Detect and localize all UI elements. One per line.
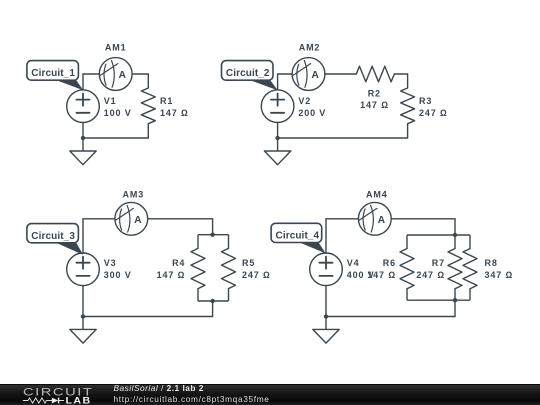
svg-text:R1: R1 [160,96,173,106]
wire: AM4 right to parallel top node [391,219,455,235]
node: circuit 1 ground junction [81,136,85,140]
resistor R8 [463,249,477,289]
resistor R2 [356,66,394,82]
wire: V3 bottom to ground node [82,286,84,317]
CircuitLab logo: LAB wordmark [66,396,92,405]
node: circuit 2 ground junction [275,136,279,140]
svg-text:Circuit_1: Circuit_1 [31,68,75,79]
voltage source V1 [67,90,100,123]
wire: V1 top to AM1 left [83,74,99,90]
svg-text:247 Ω: 247 Ω [242,270,271,280]
svg-text:R7: R7 [432,258,445,268]
wire: parallel bottom bar [198,300,229,302]
svg-text:200 V: 200 V [298,108,326,118]
svg-text:147 Ω: 147 Ω [160,108,189,118]
node: circuit 4 ground junction [324,314,328,318]
label AM3 [123,189,145,199]
svg-text:A: A [134,215,142,226]
ground (circuit 2) [264,151,290,165]
ammeter AM4 [358,202,391,235]
wire: V2 bottom to ground node [277,123,279,139]
svg-text:BasilSorial / 2.1 lab 2: BasilSorial / 2.1 lab 2 [114,383,204,393]
wire: parallel top bar [198,234,229,236]
svg-text:http://circuitlab.com/c8pt3mqa: http://circuitlab.com/c8pt3mqa35fme [114,394,270,404]
label AM4 [366,189,388,199]
footer title text [114,383,204,393]
svg-text:V2: V2 [298,96,311,106]
svg-text:Circuit_2: Circuit_2 [226,68,270,79]
svg-text:R5: R5 [242,258,255,268]
wire: V3 top to AM3 left [83,219,115,253]
wire: parallel top bar [407,234,470,236]
wire: bottom node to ground wire [326,300,455,316]
wire: R4 stubs [197,235,199,301]
wire: AM3 right to parallel top node [148,219,213,235]
label V4 400 V [347,258,375,280]
svg-text:V1: V1 [104,96,117,106]
ammeter AM2 [292,58,325,91]
svg-text:Circuit_4: Circuit_4 [276,231,320,242]
svg-text:247 Ω: 247 Ω [419,108,448,118]
wire: bottom node to ground wire [83,301,213,317]
svg-text:347 Ω: 347 Ω [485,270,514,280]
svg-text:147 Ω: 147 Ω [367,270,396,280]
voltage source V3 [67,253,100,286]
footer url text [114,394,270,404]
label R3 247 Ω [419,96,448,118]
wire: R2 right to R3 top [394,74,407,88]
ammeter AM3 [115,202,148,235]
svg-text:100 V: 100 V [104,108,132,118]
label R1 147 Ω [160,96,189,118]
svg-text:Circuit_3: Circuit_3 [31,231,75,242]
node name flag Circuit_2 [222,61,278,91]
svg-text:147 Ω: 147 Ω [157,270,186,280]
node: parallel bottom junction [210,299,214,303]
ammeter AM1 [99,58,132,91]
wire: parallel bottom bar [407,299,470,301]
label R7 247 Ω [416,258,445,280]
node name flag Circuit_4 [271,223,325,253]
wire: node to ground symbol [325,317,327,330]
wire: V4 top to AM4 left [326,219,358,253]
label AM1 [105,43,127,53]
wire: V1 bottom to ground node [82,123,84,139]
label V3 300 V [104,258,132,280]
node name flag Circuit_3 [27,224,83,255]
svg-text:A: A [119,70,127,81]
svg-text:R6: R6 [383,258,396,268]
label V1 100 V [104,96,132,118]
wire: R5 stubs [228,235,230,301]
label R6 147 Ω [367,258,396,280]
CircuitLab logo: CIRCUIT wordmark [23,385,93,398]
CircuitLab logo: resistor-diode glyph [23,398,64,404]
svg-text:AM3: AM3 [123,189,145,199]
footer bar [0,384,540,405]
svg-text:R4: R4 [172,258,185,268]
label R4 147 Ω [157,258,186,280]
ground (circuit 1) [70,151,96,165]
resistor R3 [401,88,415,124]
svg-text:AM2: AM2 [299,43,321,53]
wire: R6 stubs [406,235,408,300]
svg-text:LAB: LAB [66,396,92,405]
svg-text:300 V: 300 V [104,270,132,280]
wire: R7 stubs [454,235,456,300]
resistor R4 [191,248,205,288]
voltage source V4 [310,253,343,286]
svg-text:A: A [311,70,319,81]
label R8 347 Ω [485,258,514,280]
wire: node to ground symbol [82,317,84,330]
wire: V4 bottom to ground node [325,286,327,317]
svg-text:A: A [378,215,386,226]
wire: node to ground symbol [277,138,279,151]
node: parallel top junction [210,233,214,237]
label AM2 [299,43,321,53]
wire: R1 bottom to ground node [83,124,148,138]
wire: R8 stubs [469,235,471,300]
resistor R5 [222,248,236,288]
node: circuit 3 ground junction [81,314,85,318]
svg-text:R2: R2 [368,88,381,98]
label R2 147 Ω [360,88,389,110]
ground (circuit 3) [70,329,96,343]
resistor R6 [400,249,414,289]
svg-text:R8: R8 [485,258,498,268]
label R5 247 Ω [242,258,271,280]
node name flag Circuit_1 [27,61,83,91]
svg-text:247 Ω: 247 Ω [416,270,445,280]
label V2 200 V [298,96,326,118]
svg-text:AM4: AM4 [366,189,388,199]
resistor R1 [141,88,155,124]
svg-text:147 Ω: 147 Ω [360,100,389,110]
svg-text:V4: V4 [347,258,360,268]
wire: node to ground symbol [82,138,84,151]
ground (circuit 4) [313,329,339,343]
wire: V2 top to AM2 left [278,74,293,90]
svg-text:R3: R3 [419,96,432,106]
wire: AM1 right to R1 top [132,74,148,88]
wire: R3 bottom to ground node [278,124,408,138]
node: parallel bottom junction [453,298,457,302]
svg-text:V3: V3 [104,258,117,268]
resistor R7 [448,249,462,289]
voltage source V2 [261,90,294,123]
svg-text:AM1: AM1 [105,43,127,53]
wire: AM2 right to R2 left [325,73,356,75]
node: parallel top junction [453,233,457,237]
